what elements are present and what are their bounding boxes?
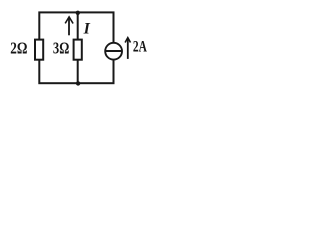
source arrow 2A <box>125 38 130 59</box>
node bottom junction <box>76 81 80 85</box>
resistor 2ohm <box>35 40 43 60</box>
svg-text:2A: 2A <box>133 39 147 56</box>
current arrow I <box>65 17 73 35</box>
current source 2A circle <box>105 43 122 60</box>
svg-text:I: I <box>83 20 91 37</box>
wire outer loop <box>39 12 113 83</box>
resistor 3ohm <box>74 40 82 60</box>
wire middle branch <box>77 12 79 83</box>
svg-text:2Ω: 2Ω <box>10 39 27 58</box>
svg-text:3Ω: 3Ω <box>53 39 69 58</box>
node top junction <box>76 11 80 15</box>
current source bar <box>105 50 122 52</box>
